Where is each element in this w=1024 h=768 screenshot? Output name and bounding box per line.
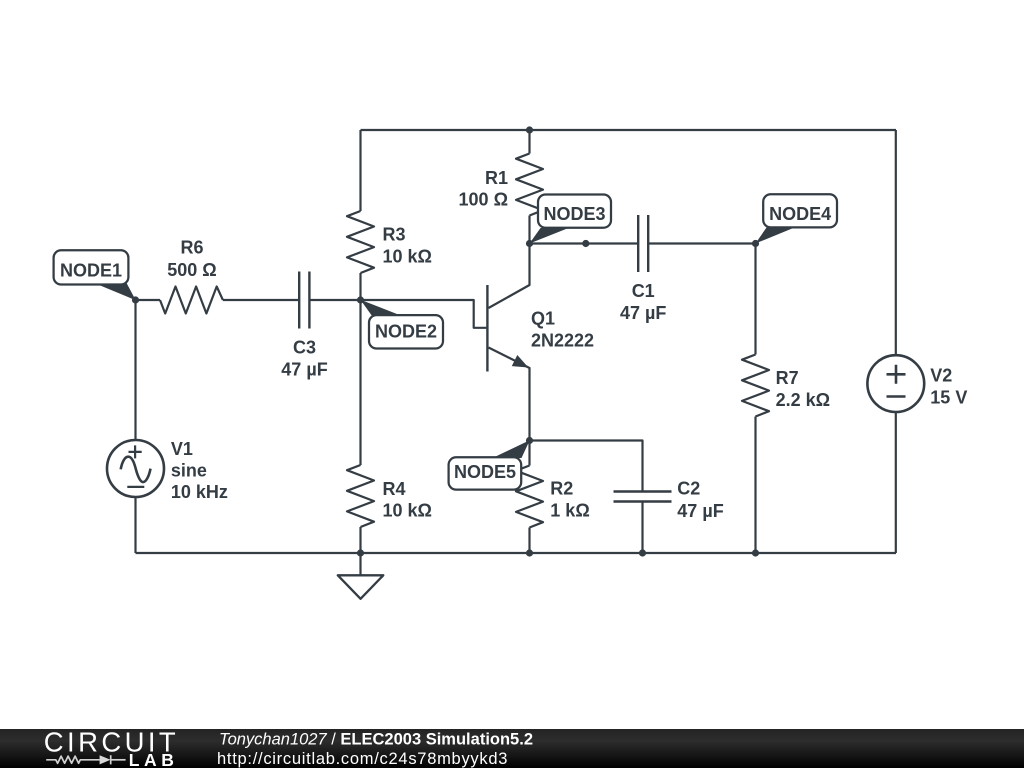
wire NODE2 down to R4 xyxy=(359,300,361,465)
wire R4 to bottom rail xyxy=(359,527,361,553)
node NODE3 junction dot xyxy=(526,240,533,247)
transistor Q1 emitter arrowhead xyxy=(512,355,529,368)
resistor R7 xyxy=(742,355,769,417)
wire NODE5 to C2 xyxy=(530,441,643,492)
node NODE4 junction dot xyxy=(752,240,759,247)
svg-text:1 kΩ: 1 kΩ xyxy=(550,501,589,521)
resistor R2 xyxy=(516,466,543,528)
svg-text:10 kΩ: 10 kΩ xyxy=(383,501,432,521)
wire NODE5 to R2 xyxy=(528,441,530,466)
svg-text:NODE2: NODE2 xyxy=(375,321,437,341)
footer bar xyxy=(0,729,1024,768)
node NODE3 label box xyxy=(538,195,611,228)
ground wire stub xyxy=(359,553,361,575)
wire NODE1 to R6 xyxy=(136,299,161,301)
junction dot R7 bottom xyxy=(752,549,759,556)
resistor R4 xyxy=(347,465,374,527)
wire R1 to NODE3 xyxy=(528,216,530,244)
wire right rail upper (to V2 top) xyxy=(895,130,897,356)
wire R6 to C3 xyxy=(223,299,299,301)
junction dot C2 bottom xyxy=(639,549,646,556)
V2 minus sign xyxy=(887,395,906,398)
svg-text:500 Ω: 500 Ω xyxy=(167,260,216,280)
node NODE5 label box xyxy=(449,457,522,489)
wire right rail lower (V2 bottom to ground rail) xyxy=(895,412,897,553)
wire R2 to bottom rail xyxy=(528,528,530,554)
svg-text:R1: R1 xyxy=(485,168,508,188)
wire C1 to NODE4 xyxy=(648,242,755,244)
svg-text:2.2 kΩ: 2.2 kΩ xyxy=(776,390,830,410)
svg-text:C1: C1 xyxy=(632,281,655,301)
wire bottom rail xyxy=(136,552,897,554)
footer logo diode triangle xyxy=(100,755,111,764)
node NODE4 pointer wedge xyxy=(756,228,795,244)
svg-text:V2: V2 xyxy=(930,366,952,386)
junction dot top rail R1 xyxy=(526,126,533,133)
svg-text:NODE1: NODE1 xyxy=(60,260,122,280)
voltage source V1 circle xyxy=(107,440,164,497)
transistor Q1 base bar xyxy=(486,285,488,372)
svg-text:C2: C2 xyxy=(677,479,700,499)
junction dot NODE3 wire xyxy=(582,240,589,247)
wire R7 to bottom rail xyxy=(754,417,756,554)
node NODE2 pointer wedge xyxy=(361,300,400,316)
node NODE1 junction dot xyxy=(132,296,139,303)
capacitor C2 xyxy=(614,492,672,502)
node NODE4 label box xyxy=(763,194,837,227)
svg-text:http://circuitlab.com/c24s78mb: http://circuitlab.com/c24s78mbyykd3 xyxy=(217,750,508,768)
svg-text:R6: R6 xyxy=(180,238,203,258)
wire NODE2 to Q1 base xyxy=(361,300,487,328)
wire top rail xyxy=(361,129,897,131)
resistor R6 xyxy=(160,287,223,314)
svg-text:Tonychan1027 / ELEC2003 Simula: Tonychan1027 / ELEC2003 Simulation5.2 xyxy=(219,731,533,749)
node NODE1 pointer wedge xyxy=(96,283,136,300)
junction dot R2 bottom xyxy=(526,549,533,556)
wire NODE4 down to R7 xyxy=(754,244,756,355)
svg-text:LAB: LAB xyxy=(129,750,179,768)
transistor Q1 emitter xyxy=(489,348,530,441)
wire C3 to NODE2 xyxy=(309,299,360,301)
node NODE5 pointer wedge xyxy=(493,440,530,458)
resistor R1 xyxy=(516,154,543,216)
wire top rail corner to R3 xyxy=(359,130,361,211)
wire V1 to bottom rail xyxy=(134,497,136,553)
wire C2 to bottom rail xyxy=(641,502,643,554)
svg-text:47 µF: 47 µF xyxy=(620,303,666,323)
node NODE3 pointer wedge xyxy=(530,228,569,244)
node NODE2 label box xyxy=(369,315,443,348)
svg-text:Q1: Q1 xyxy=(531,309,555,329)
capacitor C1 xyxy=(638,215,648,272)
svg-text:sine: sine xyxy=(171,461,207,481)
svg-text:R2: R2 xyxy=(550,479,573,499)
svg-text:C3: C3 xyxy=(293,338,316,358)
wire NODE1 down to V1 xyxy=(134,300,136,440)
svg-text:V1: V1 xyxy=(171,439,193,459)
svg-text:NODE4: NODE4 xyxy=(769,204,831,224)
svg-text:NODE3: NODE3 xyxy=(543,204,605,224)
svg-text:47 µF: 47 µF xyxy=(677,501,723,521)
resistor R3 xyxy=(347,211,374,273)
wire top rail to R1 xyxy=(528,130,530,154)
node NODE2 junction dot xyxy=(357,296,364,303)
node NODE1 label box xyxy=(54,250,129,284)
svg-text:10 kHz: 10 kHz xyxy=(171,482,228,502)
node NODE5 junction dot xyxy=(526,437,533,444)
voltage source V2 circle xyxy=(867,355,924,412)
svg-text:10 kΩ: 10 kΩ xyxy=(383,246,432,266)
V2 plus sign xyxy=(887,365,906,384)
wire NODE3 to C1 xyxy=(530,242,639,244)
svg-text:15 V: 15 V xyxy=(930,387,967,407)
svg-text:100 Ω: 100 Ω xyxy=(459,190,508,210)
V1 plus sign xyxy=(129,445,142,458)
ground symbol xyxy=(338,575,384,599)
svg-text:R4: R4 xyxy=(383,479,406,499)
svg-text:R3: R3 xyxy=(383,225,406,245)
footer logo resistor-diode glyph xyxy=(46,755,125,764)
svg-text:NODE5: NODE5 xyxy=(454,462,516,482)
junction dot R4 bottom xyxy=(357,549,364,556)
transistor Q1 collector xyxy=(489,244,530,309)
svg-text:47 µF: 47 µF xyxy=(281,359,327,379)
svg-text:2N2222: 2N2222 xyxy=(531,331,594,351)
V1 minus sign xyxy=(127,486,144,488)
capacitor C3 xyxy=(299,272,309,329)
wire R3 to NODE2 xyxy=(359,273,361,300)
svg-text:R7: R7 xyxy=(776,368,799,388)
V1 sine wave xyxy=(121,457,151,482)
